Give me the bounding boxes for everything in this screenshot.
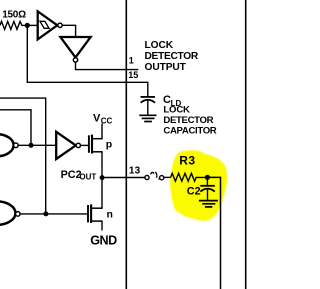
- svg-text:OUTPUT: OUTPUT: [145, 62, 187, 73]
- svg-text:OUT: OUT: [79, 173, 96, 182]
- open terminal circle left: [145, 175, 149, 179]
- inverter U2 (pointing down): [60, 37, 90, 62]
- IC boundary left: [125, 0, 127, 289]
- capacitor C2: [200, 177, 215, 200]
- resistor R3: [171, 173, 208, 181]
- schmitt inverter U1: [38, 11, 63, 39]
- resistor 150 ohm: [0, 21, 27, 29]
- wire to R3: [164, 176, 171, 178]
- svg-text:150Ω: 150Ω: [2, 10, 26, 21]
- svg-text:C2: C2: [187, 185, 201, 197]
- ground for C2: [199, 201, 218, 207]
- node junction dot G2/feedback: [43, 211, 48, 216]
- svg-text:R3: R3: [179, 154, 195, 168]
- svg-text:LOCK: LOCK: [163, 105, 190, 116]
- node PC2out junction dot: [100, 175, 105, 180]
- wire G2 to Q2 gate: [20, 213, 87, 215]
- wire G1 to U3: [18, 144, 56, 146]
- svg-text:n: n: [107, 209, 113, 221]
- svg-text:15: 15: [128, 70, 138, 80]
- svg-text:13: 13: [129, 166, 141, 177]
- wire PC2out to pin 13 stub: [102, 177, 145, 179]
- wire junction to bottom edge: [207, 177, 220, 289]
- highlighter mark over R3/C2: [170, 150, 227, 221]
- wire U1 out to U2 in: [62, 25, 75, 36]
- break squiggle: [151, 172, 161, 179]
- svg-text:GND: GND: [90, 234, 117, 248]
- svg-text:1: 1: [129, 56, 134, 66]
- node junction dot G1/feedback: [29, 143, 34, 148]
- svg-text:DETECTOR: DETECTOR: [163, 115, 213, 126]
- wire U2 out to pin 1: [76, 62, 139, 70]
- wire U3 to Q1 gate: [81, 144, 89, 146]
- svg-text:LOCK: LOCK: [145, 40, 174, 51]
- transistor Q1 PMOS: [89, 124, 103, 178]
- wire node A to U1 input: [27, 24, 38, 26]
- wire node A to pin 15 and CLD: [27, 25, 148, 96]
- ground for CLD: [139, 115, 156, 121]
- capacitor CLD: [141, 97, 156, 115]
- inverter U3: [56, 132, 80, 159]
- svg-text:DETECTOR: DETECTOR: [145, 51, 199, 62]
- gate G2 (partial, at left edge): [0, 201, 20, 225]
- IC boundary right: [245, 0, 247, 289]
- node A junction dot: [25, 23, 30, 28]
- node R3/C2 junction dot: [205, 175, 210, 180]
- wire feedback upper (from left edge): [0, 98, 46, 214]
- svg-text:p: p: [106, 139, 112, 151]
- transistor Q2 NMOS: [88, 178, 103, 231]
- open terminal circle right: [160, 176, 164, 180]
- wire feedback lower (from left edge): [0, 110, 31, 146]
- gate G1 (partial, at left edge): [0, 134, 18, 156]
- svg-text:CAPACITOR: CAPACITOR: [163, 126, 216, 137]
